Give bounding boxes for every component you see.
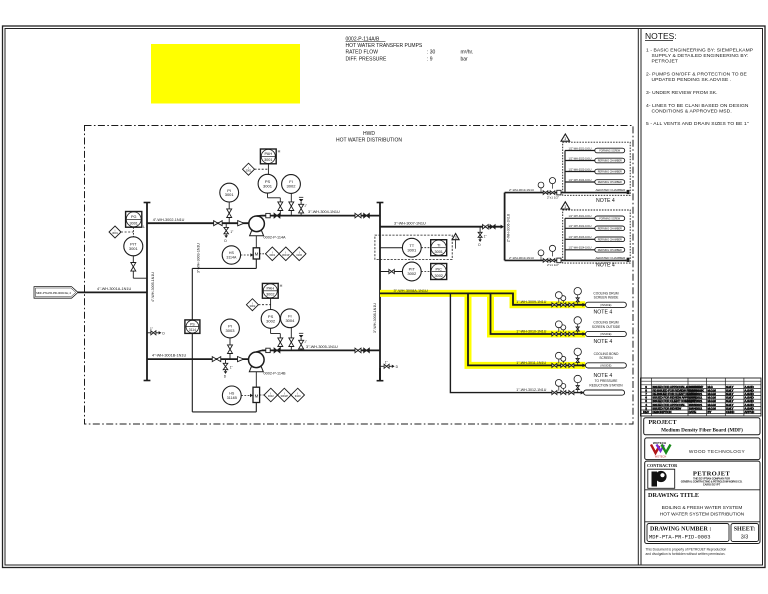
- svg-text:REFINING CHAMBER: REFINING CHAMBER: [598, 249, 622, 252]
- valve under PIT 3001: [132, 256, 134, 278]
- svg-text:3114A: 3114A: [226, 256, 237, 260]
- svg-text:WOTECH: WOTECH: [655, 455, 667, 459]
- consumer box: [595, 148, 625, 153]
- svg-text:NOTE 4: NOTE 4: [594, 310, 613, 316]
- svg-text:2"-WH-3013-1N1U: 2"-WH-3013-1N1U: [509, 256, 534, 260]
- svg-text:3001: 3001: [129, 246, 139, 251]
- svg-text:3100: 3100: [296, 253, 302, 257]
- svg-text:REFINING CHAMBER: REFINING CHAMBER: [598, 181, 622, 184]
- gate valve + check before header B: [355, 348, 358, 353]
- wire branch: [565, 249, 595, 251]
- svg-text:SHEET:: SHEET:: [734, 526, 756, 532]
- svg-text:3001: 3001: [246, 168, 252, 172]
- wire branch: [565, 238, 595, 240]
- wire recirculation riser 3"-WH-3003: [191, 268, 193, 320]
- strainer suction B: [238, 357, 244, 362]
- valves on group supply: [543, 191, 545, 195]
- svg-text:M: M: [255, 252, 259, 257]
- svg-text:FORMING SCREW: FORMING SCREW: [599, 217, 621, 220]
- svg-text:and divulgation is forbidden w: and divulgation is forbidden without wri…: [646, 552, 726, 556]
- riser to PS 3002: [279, 334, 281, 351]
- svg-text:MDF-PTA-PR-PID-0003: MDF-PTA-PR-PID-0003: [649, 534, 710, 540]
- wire group supply: [505, 192, 627, 194]
- svg-text:1/2"-WH-3022-1N1U: 1/2"-WH-3022-1N1U: [569, 157, 592, 160]
- svg-text:1": 1": [150, 327, 153, 331]
- svg-text:1"-WH-3009-1N1U: 1"-WH-3009-1N1U: [516, 300, 546, 304]
- revision table: [641, 378, 762, 416]
- wire branch: [565, 217, 595, 219]
- svg-text:PROJECT: PROJECT: [649, 420, 677, 426]
- reducer on discharge B: [266, 348, 270, 352]
- check valve discharge A: [274, 213, 277, 218]
- svg-text:CONDITIONS & APPROVED MSD.: CONDITIONS & APPROVED MSD.: [652, 109, 732, 115]
- right column separator: [637, 29, 639, 566]
- instrument PI 3003: [221, 319, 240, 338]
- svg-text:3: 3: [564, 205, 566, 209]
- svg-text:(INSIDE): (INSIDE): [600, 332, 611, 336]
- svg-text:1": 1": [385, 361, 388, 365]
- riser to PS 3001: [279, 198, 281, 216]
- svg-text:3: 3: [564, 137, 566, 141]
- svg-text:1 - BASIC ENGINEERING BY: SIEM: 1 - BASIC ENGINEERING BY: SIEMPELKAMP: [646, 48, 753, 54]
- svg-text:1/2"-WH-3024-1N1U: 1/2"-WH-3024-1N1U: [569, 247, 592, 250]
- instrument PS 3002: [261, 310, 280, 329]
- interlock diamond I-3001: [243, 163, 255, 175]
- svg-text:NOTE 4: NOTE 4: [594, 339, 613, 345]
- contractor / title / number block: [645, 461, 760, 543]
- svg-text:(INSIDE): (INSIDE): [600, 364, 611, 368]
- pump 0002-P-114A: [250, 231, 264, 236]
- svg-text:PIC: PIC: [436, 267, 443, 271]
- svg-text:SCREEN: SCREEN: [599, 356, 613, 360]
- gauge TG: [555, 321, 562, 328]
- svg-text:This Document is property of P: This Document is property of PETROJET Re…: [646, 548, 727, 552]
- svg-text:1": 1": [304, 339, 307, 343]
- header bottom drain 1": [380, 365, 384, 367]
- group riser: [564, 218, 566, 260]
- svg-text:CAIRO EGYPT: CAIRO EGYPT: [703, 483, 721, 486]
- wire 3"-WH-3007 to consumers manifold: [380, 226, 501, 228]
- wire to TT 3001: [380, 247, 402, 249]
- instrument PG 3001 square: [126, 212, 142, 228]
- instrument PIT 3001: [132, 227, 134, 237]
- instrument PS 3001: [258, 174, 277, 193]
- svg-text:: 9: : 9: [427, 57, 433, 63]
- instrument TI 3001: [431, 240, 447, 256]
- instrument PIT 3002: [402, 262, 421, 281]
- svg-text:1"-WH-3010-1N1U: 1"-WH-3010-1N1U: [516, 329, 546, 333]
- node manifold 2"-WH-3006: [504, 193, 506, 261]
- consumer box: [595, 226, 625, 231]
- svg-text:RATED FLOW: RATED FLOW: [346, 50, 379, 56]
- svg-text:3003: 3003: [226, 328, 236, 333]
- svg-text:3114: 3114: [189, 328, 196, 332]
- instrument PIC 3002: [431, 264, 447, 280]
- svg-text:DRAWING NUMBER :: DRAWING NUMBER :: [650, 526, 711, 532]
- consumer box: [595, 237, 625, 242]
- gate valve + check before header A: [355, 213, 358, 218]
- svg-text:M: M: [255, 393, 259, 398]
- HWD battery limit dashed box: [85, 126, 634, 425]
- vent with valve on discharge A: [300, 202, 302, 216]
- svg-text:DRAWING TITLE: DRAWING TITLE: [648, 492, 699, 499]
- svg-text:REFINING CHAMBER: REFINING CHAMBER: [598, 238, 622, 241]
- svg-text:REDUCTION STATION: REDUCTION STATION: [589, 383, 623, 387]
- svg-text:H: H: [278, 150, 281, 154]
- wire branch: [565, 160, 595, 162]
- svg-text:3004: 3004: [285, 318, 295, 323]
- svg-text:1": 1": [230, 366, 233, 370]
- svg-text:3001: 3001: [263, 183, 273, 188]
- svg-text:REFINING CHAMBER: REFINING CHAMBER: [598, 171, 622, 174]
- hand switch HS 3114A: [222, 246, 240, 264]
- wire branch: [565, 171, 595, 173]
- svg-text:0002-P-114A: 0002-P-114A: [264, 236, 287, 240]
- consumer box: [595, 248, 625, 253]
- svg-text:AERATED CHAMBER: AERATED CHAMBER: [596, 188, 627, 192]
- wire pump A discharge 3"-WH-3004: [257, 215, 262, 217]
- gate valve suction A: [214, 221, 218, 226]
- valves row station: [552, 391, 555, 395]
- svg-text:2"-WH-3013-1N1U: 2"-WH-3013-1N1U: [509, 188, 534, 192]
- svg-text:3"-WH-3008A-1N1U: 3"-WH-3008A-1N1U: [394, 289, 429, 293]
- instrument FI 3004: [281, 309, 300, 328]
- svg-text:3"-WH-3007-1N1U: 3"-WH-3007-1N1U: [394, 221, 426, 225]
- svg-text:WOOD TECHNOLOGY: WOOD TECHNOLOGY: [689, 449, 746, 455]
- petrojet P logo: [648, 469, 675, 488]
- svg-text:3001: 3001: [434, 250, 442, 254]
- node suction header: [146, 203, 148, 381]
- consumer box: [595, 158, 625, 163]
- svg-text:0002-P-114B: 0002-P-114B: [264, 371, 287, 375]
- svg-text:1"-WH-3012-1N1U: 1"-WH-3012-1N1U: [516, 388, 546, 392]
- svg-text:SCREEN OUTSIDE: SCREEN OUTSIDE: [592, 325, 620, 329]
- drain under suction B: [225, 359, 227, 364]
- svg-text:1"-WH-3011-1N1U: 1"-WH-3011-1N1U: [516, 361, 546, 365]
- svg-text:4"-WH-3001A-1N1U: 4"-WH-3001A-1N1U: [97, 287, 132, 291]
- svg-text:UPDATED PENDING SK.ADVISE .: UPDATED PENDING SK.ADVISE .: [652, 77, 732, 83]
- consumer box: [595, 216, 625, 221]
- TT 3001 dashed group box: [375, 235, 452, 259]
- svg-text:PETROJET: PETROJET: [693, 470, 731, 477]
- svg-text:1/2"-WH-3023-1N1U: 1/2"-WH-3023-1N1U: [569, 236, 592, 239]
- svg-text:2"x1 1/2": 2"x1 1/2": [547, 263, 559, 267]
- svg-text:3002: 3002: [268, 394, 274, 398]
- svg-text:Medium Density Fiber Board (MD: Medium Density Fiber Board (MDF): [661, 426, 743, 433]
- svg-text:3001P: 3001P: [282, 253, 290, 257]
- svg-text:3002: 3002: [287, 184, 297, 189]
- gauge TG: [555, 292, 562, 299]
- wire yellow main: [380, 293, 585, 304]
- svg-text:REFINING CHAMBER: REFINING CHAMBER: [598, 160, 622, 163]
- motor M pump B: [255, 372, 257, 387]
- svg-text:NOTE 4: NOTE 4: [594, 373, 613, 379]
- instrument TT 3001: [402, 238, 421, 257]
- svg-text:APPVD: APPVD: [744, 410, 755, 414]
- svg-text:3001: 3001: [112, 231, 118, 235]
- consumer group dashed box: [563, 210, 631, 263]
- svg-text:NOTES:: NOTES:: [645, 31, 677, 41]
- wire pump B suction 4"-WH-3001B: [147, 358, 249, 360]
- wire group supply: [505, 259, 627, 261]
- svg-text:3"-WH-3005-1N1U: 3"-WH-3005-1N1U: [306, 345, 338, 349]
- svg-text:3002P: 3002P: [281, 394, 289, 398]
- header end drain: [379, 368, 381, 381]
- svg-text:3002: 3002: [434, 274, 442, 278]
- wire recirculation B: [255, 403, 257, 412]
- wire pump A suction 4"-WH-3002: [147, 222, 249, 224]
- svg-text:1": 1": [484, 234, 487, 238]
- svg-text:H: H: [280, 284, 283, 288]
- drain on 3"-WH-3007: [479, 227, 481, 233]
- interlock diamonds pump B: [264, 388, 278, 402]
- drain under suction A: [225, 223, 227, 228]
- reducer on discharge A: [266, 213, 270, 217]
- svg-text:CONTRACTOR: CONTRACTOR: [647, 463, 678, 468]
- svg-text:4- LINES TO BE CLANI BASED ON: 4- LINES TO BE CLANI BASED ON DESIGN: [646, 103, 749, 109]
- svg-text:2- PUMPS ON/OFF & PROTECTION T: 2- PUMPS ON/OFF & PROTECTION TO BE: [646, 72, 748, 78]
- instrument PI 3001: [220, 183, 239, 202]
- wire branch: [565, 227, 595, 229]
- equipment connection: [627, 190, 630, 194]
- alarm PAH 3001: [260, 149, 276, 164]
- gauge PG: [574, 317, 581, 324]
- svg-text:1/2"-WH-3023-1N1U: 1/2"-WH-3023-1N1U: [569, 168, 592, 171]
- pump 0002-P-114B: [249, 367, 263, 372]
- gauge TG: [555, 352, 562, 359]
- note triangle group: [561, 134, 570, 141]
- svg-text:3002: 3002: [407, 271, 417, 276]
- note triangle group: [561, 202, 570, 209]
- gauge PG: [574, 348, 581, 355]
- group riser: [564, 151, 566, 193]
- svg-text:3- UNDER REVIEW FROM SK.: 3- UNDER REVIEW FROM SK.: [646, 90, 718, 96]
- valves on group supply: [543, 259, 545, 263]
- svg-text:NOTE 4: NOTE 4: [596, 198, 615, 204]
- svg-text:3001: 3001: [225, 192, 235, 197]
- note triangle 3: [452, 234, 459, 240]
- svg-text:MDF-PTA-PR-PID-0003-SH, 2: MDF-PTA-PR-PID-0003-SH, 2: [36, 291, 71, 295]
- svg-text:4"-WH-3005-1N1U: 4"-WH-3005-1N1U: [151, 272, 155, 302]
- gauge PG: [574, 288, 581, 295]
- node discharge header: [379, 203, 381, 381]
- svg-text:3: 3: [455, 236, 457, 240]
- svg-text:HS: HS: [229, 251, 235, 255]
- svg-text:AERATED CHAMBER: AERATED CHAMBER: [596, 256, 627, 260]
- strainer suction A: [238, 221, 244, 226]
- motor M pump A: [255, 236, 257, 248]
- svg-text:3"-WH-3008-1N1U: 3"-WH-3008-1N1U: [373, 303, 377, 333]
- interlock diamond I-3001A: [109, 226, 121, 238]
- svg-text:3002: 3002: [266, 293, 274, 297]
- svg-text:CHKD: CHKD: [726, 410, 735, 414]
- svg-text:bar: bar: [461, 57, 469, 63]
- equipment connection: [627, 258, 630, 262]
- svg-text:PAH: PAH: [267, 287, 275, 291]
- svg-text:3001: 3001: [407, 247, 417, 252]
- svg-text:1/2"-WH-3022-1N1U: 1/2"-WH-3022-1N1U: [569, 225, 592, 228]
- svg-text:3"-WH-3003-1N1U: 3"-WH-3003-1N1U: [196, 243, 200, 273]
- svg-text:3100: 3100: [295, 394, 301, 398]
- svg-text:5 - ALL VENTS AND DRAIN SIZES: 5 - ALL VENTS AND DRAIN SIZES TO BE 1": [646, 121, 749, 127]
- consumer group dashed box: [563, 142, 631, 195]
- svg-text:DATE: DATE: [689, 410, 697, 414]
- wire recirculation A: [255, 259, 257, 268]
- wood technology box: [645, 438, 760, 460]
- svg-text:3001: 3001: [264, 158, 272, 162]
- svg-text:PS: PS: [190, 322, 195, 326]
- instrument FI 3002: [282, 175, 301, 194]
- gauge TG: [555, 380, 562, 387]
- header drain 1": [147, 332, 151, 334]
- svg-text:1/2"-WH-3021-1N1U: 1/2"-WH-3021-1N1U: [569, 147, 592, 150]
- svg-text:4"-WH-3002-1N1U: 4"-WH-3002-1N1U: [153, 218, 185, 222]
- svg-text:REFINING CHAMBER: REFINING CHAMBER: [598, 227, 622, 230]
- svg-text:PAH: PAH: [265, 152, 273, 156]
- instrument PS 3114 square: [185, 320, 200, 334]
- riser to FI 3002: [290, 194, 292, 216]
- svg-text:DIFF. PRESSURE: DIFF. PRESSURE: [346, 57, 388, 63]
- wire to PIT 3002: [380, 271, 402, 273]
- off-page connector MDF-PTA-PR-PID-0003-SH.2: [34, 287, 78, 299]
- wire pump B discharge 3"-WH-3005: [256, 350, 262, 352]
- svg-text:HOT WATER SYSTEM DISTRIBUTION: HOT WATER SYSTEM DISTRIBUTION: [660, 511, 745, 517]
- svg-text:HOT WATER DISTRIBUTION: HOT WATER DISTRIBUTION: [336, 138, 402, 144]
- svg-text:1": 1": [304, 203, 307, 207]
- consumer box: [595, 180, 625, 185]
- drawing number: [647, 524, 729, 542]
- wire row2: [491, 293, 586, 334]
- interlock diamonds pump A: [266, 247, 280, 261]
- wire inlet line 4"-WH-3001A: [78, 291, 147, 293]
- svg-text:WOTECH: WOTECH: [653, 441, 666, 445]
- interlock diamond I-3002: [246, 299, 258, 311]
- wire row3: [468, 293, 585, 365]
- wire PIT to header: [133, 277, 147, 279]
- svg-text:1/2"-WH-3024-1N1U: 1/2"-WH-3024-1N1U: [569, 179, 592, 182]
- svg-text:4"-WH-3001B-1N1U: 4"-WH-3001B-1N1U: [152, 354, 187, 358]
- svg-text:3002: 3002: [250, 304, 256, 308]
- svg-text:PETROJET: PETROJET: [652, 59, 679, 65]
- consumer box: [595, 169, 625, 174]
- svg-text:: 30: : 30: [427, 50, 436, 56]
- svg-text:3001: 3001: [129, 222, 137, 226]
- svg-text:HOT WATER TRANSFER PUMPS: HOT WATER TRANSFER PUMPS: [346, 43, 423, 49]
- valves row station: [552, 363, 555, 367]
- svg-text:PG: PG: [131, 215, 137, 219]
- svg-text:3114B: 3114B: [227, 396, 238, 400]
- svg-text:(INSIDE): (INSIDE): [600, 303, 611, 307]
- check valve discharge B: [274, 348, 277, 353]
- valves row station: [552, 332, 555, 336]
- svg-text:3001: 3001: [269, 253, 275, 257]
- svg-text:3002: 3002: [266, 319, 276, 324]
- yellow highlight rectangle: [151, 44, 300, 104]
- svg-text:TI: TI: [437, 244, 440, 248]
- valves row station: [552, 303, 555, 307]
- wire row4 to pressure reduction: [450, 293, 583, 392]
- hand switch HS 3114B: [222, 386, 241, 405]
- yellow highlight main 3"-WH-3008A: [380, 293, 585, 304]
- svg-text:NOTE 4: NOTE 4: [596, 262, 615, 268]
- riser to FI 3004: [290, 328, 292, 351]
- svg-text:SUPPLY & DETAILED ENGINEERING: SUPPLY & DETAILED ENGINEERING BY:: [652, 53, 749, 59]
- svg-text:SCREEN INSIDE: SCREEN INSIDE: [594, 296, 619, 300]
- gate valve suction B: [212, 357, 216, 362]
- svg-text:HWD: HWD: [363, 131, 375, 137]
- wire branch: [565, 150, 595, 152]
- project box: [644, 418, 760, 435]
- svg-text:3"-WH-3004-1N1U: 3"-WH-3004-1N1U: [308, 210, 340, 214]
- svg-text:1": 1": [230, 230, 233, 234]
- svg-text:2"-WH-3006-1N1U: 2"-WH-3006-1N1U: [507, 213, 511, 242]
- svg-text:L: L: [143, 225, 145, 229]
- svg-text:m³/hr.: m³/hr.: [461, 50, 474, 56]
- wire branch: [565, 181, 595, 183]
- alarm PAH 3002: [262, 283, 278, 298]
- gauge PG: [574, 375, 581, 382]
- svg-text:DESCRIPTION: DESCRIPTION: [652, 410, 672, 414]
- svg-text:2"x1 1/2": 2"x1 1/2": [547, 195, 559, 199]
- svg-text:FORMING SCREW: FORMING SCREW: [599, 150, 621, 153]
- svg-text:HS: HS: [229, 392, 235, 396]
- vent with valve on discharge B: [300, 338, 302, 350]
- svg-text:1/2"-WH-3021-1N1U: 1/2"-WH-3021-1N1U: [569, 215, 592, 218]
- svg-text:BOILING & FRESH WATER SYSTEM: BOILING & FRESH WATER SYSTEM: [662, 505, 743, 511]
- svg-text:3/3: 3/3: [741, 535, 749, 541]
